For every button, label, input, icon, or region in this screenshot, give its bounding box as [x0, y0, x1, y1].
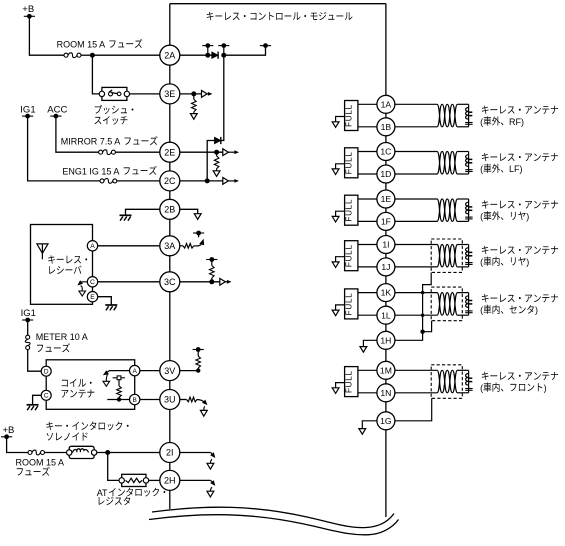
wire: 3V right: [180, 370, 198, 372]
svg-text:1B: 1B: [381, 122, 392, 132]
open arrow ground (3E): [190, 114, 197, 120]
label: keyless control module: [207, 12, 214, 20]
connector pin 1E: [377, 190, 395, 208]
wire: to right stub terminal: [224, 46, 266, 56]
svg-text:1L: 1L: [381, 310, 391, 320]
wire: down to diode D2: [221, 55, 224, 140]
svg-text:3E: 3E: [164, 89, 175, 99]
fuse ROOM 15 A (top): [64, 53, 68, 57]
svg-text:A: A: [133, 368, 138, 375]
svg-text:FULL: FULL: [345, 104, 354, 127]
svg-text:FULL: FULL: [345, 199, 354, 222]
keyless receiver box: [31, 225, 93, 305]
svg-text:1E: 1E: [381, 194, 392, 204]
wire: solenoid to 2I: [97, 452, 160, 454]
node: diode branch joins 2C: [205, 178, 210, 183]
connector pin 1J: [377, 258, 395, 276]
wires FULL box to 1C,1D: [358, 151, 377, 153]
svg-text:3A: 3A: [164, 241, 175, 251]
label keyless antenna: [482, 294, 489, 302]
svg-text:): ): [520, 164, 523, 174]
svg-text:3V: 3V: [164, 366, 175, 376]
label keyless antenna: [482, 372, 489, 380]
svg-text:2I: 2I: [166, 448, 174, 458]
open arrow below A arrow: [103, 381, 110, 386]
connector pin 1I: [377, 236, 395, 254]
svg-text:(: (: [480, 212, 483, 222]
connector pin 1B: [377, 118, 395, 136]
wires FULL box to 1E,1F: [358, 198, 377, 200]
svg-text:): ): [521, 117, 524, 127]
wire: 1G to 1M/1N box shield: [395, 398, 432, 421]
wire: 1H left to open arrow: [363, 340, 377, 346]
connector pin 1K: [377, 284, 395, 302]
wire FULL box to open arrow: [336, 211, 345, 216]
open arrow (3U): [200, 410, 207, 416]
svg-text:1A: 1A: [381, 99, 392, 109]
fuse ROOM 15 A (lower): [28, 451, 32, 455]
svg-text:(: (: [480, 305, 483, 315]
svg-text:ROOM 15 A: ROOM 15 A: [57, 40, 106, 50]
wire FULL box to open arrow: [336, 164, 345, 169]
harness wave top: [152, 507, 394, 527]
svg-text:+B: +B: [3, 425, 15, 436]
label keyless antenna: [482, 106, 489, 114]
wire: 3U right: [180, 399, 187, 401]
wire: +B down to ROOM fuse (lower): [7, 437, 28, 453]
connector pin 2I: [160, 443, 180, 463]
wire: 1G left to open arrow: [362, 421, 377, 429]
output arrow (3E): [202, 91, 208, 98]
svg-text:): ): [526, 257, 529, 267]
trimmer element inside box: [113, 377, 125, 379]
svg-text:MIRROR 7.5 A: MIRROR 7.5 A: [61, 137, 121, 147]
node with stub terminal: [223, 46, 225, 56]
output arrow (3C): [220, 278, 226, 285]
antenna coil (1E/1F): [395, 198, 437, 200]
label keyless receiver: [48, 255, 55, 263]
svg-text:METER 10 A: METER 10 A: [36, 332, 88, 342]
wire: 2B left to ground: [126, 209, 160, 215]
wire: 3E to output arrow: [180, 93, 202, 95]
svg-text:D: D: [44, 369, 49, 376]
FULL connector block (1K/1L): [345, 289, 358, 319]
svg-text:FULL: FULL: [345, 370, 354, 393]
antenna coil (1K/1L): [431, 287, 462, 321]
node: shield common: [420, 330, 424, 334]
wire: 3C to output arrow: [180, 281, 220, 283]
wires FULL box to 1K,1L: [358, 292, 377, 294]
label keyless antenna: [482, 153, 489, 161]
svg-text:1N: 1N: [380, 388, 391, 398]
wire: 2H right: [180, 479, 211, 481]
connector pin 3C: [160, 272, 180, 292]
wire FULL box to open arrow: [336, 257, 345, 262]
svg-text:ROOM 15 A: ROOM 15 A: [16, 458, 65, 468]
terminal D: [41, 366, 51, 376]
connector pin 1F: [377, 212, 395, 230]
curved arrow down (3U): [197, 400, 205, 403]
svg-text:(: (: [480, 257, 483, 267]
label keyless antenna: [482, 246, 489, 254]
wire: branch down to AT resistor: [108, 453, 119, 481]
wires FULL box to 1M,1N: [358, 369, 377, 371]
terminal B: [130, 394, 140, 404]
node: [105, 450, 110, 455]
diode D2: [215, 137, 221, 143]
open arrow (2I): [207, 463, 214, 469]
svg-text:C: C: [44, 393, 49, 400]
svg-text:FULL: FULL: [345, 292, 354, 315]
signal arrow at A (inside box): [106, 371, 130, 374]
svg-text:(: (: [480, 117, 483, 127]
wire: D2 anode down to 2C line: [207, 141, 214, 181]
svg-text:ACC: ACC: [47, 105, 67, 116]
ground (2B left): [120, 214, 132, 216]
antenna symbol: [37, 244, 48, 253]
node: [214, 150, 219, 155]
connector pin 1D: [377, 165, 395, 183]
svg-text:1G: 1G: [380, 416, 392, 426]
connector pin 1G: [377, 412, 395, 430]
wire: B internal: [107, 399, 129, 401]
wire: module left edge down to 2A: [169, 4, 171, 56]
terminal C: [87, 277, 97, 287]
signal arrow at C: [80, 282, 88, 284]
connector pin 2B: [160, 199, 180, 219]
svg-text:): ): [535, 305, 538, 315]
connector pin 3U: [160, 390, 180, 410]
svg-text:2C: 2C: [164, 176, 176, 186]
wire: A to 3A: [98, 245, 160, 247]
connector pin 2E: [160, 142, 180, 162]
svg-text:(: (: [480, 383, 483, 393]
wire: 2E to output arrow: [180, 151, 223, 153]
resistor right of 3A: [180, 245, 183, 247]
shield link: 1I/1J box down to common node: [423, 273, 432, 332]
svg-text:AT: AT: [97, 488, 108, 498]
svg-text:C: C: [90, 279, 95, 286]
svg-text:1K: 1K: [381, 288, 392, 298]
output arrow (2E): [223, 149, 229, 156]
svg-text:): ): [526, 212, 529, 222]
label key interlock solenoid: [46, 422, 53, 430]
wire: 2C to output arrow: [180, 180, 223, 182]
open arrow below C: [79, 291, 86, 296]
svg-text:RF: RF: [509, 117, 521, 127]
resistor right of 3U: [187, 397, 197, 402]
wire: branch down to push switch: [92, 55, 99, 94]
wire FULL box to open arrow: [336, 305, 345, 310]
terminal A: [130, 365, 140, 375]
svg-text:FULL: FULL: [345, 244, 354, 267]
fuse METER 10 A: [26, 335, 30, 339]
connector pin 2H: [160, 470, 180, 490]
node: junction +B feed: [90, 53, 95, 58]
FULL connector block (1C/1D): [345, 148, 358, 178]
svg-text:1M: 1M: [380, 365, 392, 375]
terminal E: [87, 292, 97, 302]
svg-text:IG1: IG1: [21, 308, 36, 319]
wire: 2A to diode D1: [180, 54, 212, 56]
diode D1: [212, 52, 218, 58]
connector pin 3A: [160, 236, 180, 256]
FULL connector block (1A/1B): [345, 101, 358, 131]
node with stub terminal: [207, 46, 209, 56]
resistor below 2E node: [216, 152, 218, 156]
FULL connector block (1M/1N): [345, 367, 358, 397]
connector pin 2A: [160, 45, 180, 65]
wire: 2B right to open arrow: [180, 209, 198, 213]
module boundary: keyless control module top edge: [170, 3, 386, 5]
wire: right connector chain vertical: [385, 104, 387, 517]
svg-text:2H: 2H: [164, 476, 176, 486]
wire: fuse to 2A: [92, 54, 159, 56]
antenna coil (1M/1N): [431, 365, 462, 399]
wire: C to ground: [33, 395, 41, 405]
terminal A: [87, 241, 97, 251]
svg-text:(: (: [480, 164, 483, 174]
connector pin 1L: [377, 306, 395, 324]
wire: IG1 down to ENG1 fuse and 2C: [28, 116, 100, 181]
svg-text:1F: 1F: [381, 217, 391, 227]
svg-text:3U: 3U: [164, 395, 176, 405]
wire: IG1 down to METER fuse: [27, 320, 29, 335]
output arrow (2C): [223, 178, 229, 185]
curved arrow to stub terminal: [194, 241, 203, 246]
wire: +B down and right to ROOM fuse: [29, 16, 64, 55]
wire: left connector chain vertical: [169, 55, 171, 509]
label coil antenna: [62, 380, 68, 387]
open arrow (2B right): [194, 214, 201, 220]
harness wave bottom: [149, 515, 399, 535]
svg-text:FULL: FULL: [345, 151, 354, 174]
shield link: common node to 1K/1L box: [423, 321, 432, 332]
svg-text:2E: 2E: [164, 147, 175, 157]
wires FULL box to 1I,1J: [358, 244, 377, 246]
svg-text:1I: 1I: [382, 240, 389, 250]
connector pin 1H: [377, 331, 395, 349]
connector pin 1M: [377, 361, 395, 379]
label keyless antenna: [482, 200, 489, 208]
wire FULL box to open arrow: [336, 383, 345, 388]
node: [191, 91, 196, 96]
FULL connector block (1I/1J): [345, 241, 358, 271]
open arrow ground (2E): [213, 171, 220, 177]
ground (coil antenna C): [27, 404, 39, 406]
svg-text:2A: 2A: [164, 50, 175, 60]
wire: A to 3V: [140, 370, 160, 372]
svg-text:): ): [544, 383, 547, 393]
wire: B to 3U: [140, 399, 160, 401]
resistor above 3V: [197, 368, 199, 371]
svg-text:2B: 2B: [164, 205, 175, 215]
wire FULL box to open arrow: [336, 117, 345, 122]
ground (receiver E): [105, 304, 117, 306]
svg-text:+B: +B: [22, 4, 34, 15]
AT interlock resistor: [122, 474, 146, 486]
svg-text:E: E: [90, 294, 95, 301]
wire: AT resistor to 2H: [149, 479, 160, 481]
FULL connector block (1E/1F): [345, 195, 358, 225]
svg-text:3C: 3C: [164, 277, 176, 287]
open arrow (2H): [207, 491, 214, 497]
wire: push switch to 3E: [130, 93, 160, 95]
svg-text:1H: 1H: [380, 335, 391, 345]
connector pin 3E: [160, 84, 180, 104]
terminal C: [41, 390, 51, 400]
svg-text:ENG1 IG 15 A: ENG1 IG 15 A: [62, 166, 119, 176]
label push switch: [95, 105, 102, 114]
wire: ACC down to MIRROR fuse and 2E: [56, 116, 99, 152]
svg-text:1C: 1C: [380, 147, 391, 157]
antenna coil (1C/1D): [395, 151, 437, 153]
wires FULL box to 1A,1B: [358, 103, 377, 105]
key interlock solenoid: [69, 446, 94, 458]
antenna coil (1A/1B): [395, 103, 437, 105]
wire: 1H to shield common: [395, 332, 423, 341]
connector pin 1N: [377, 384, 395, 402]
svg-text:A: A: [90, 243, 95, 250]
svg-text:1D: 1D: [380, 169, 391, 179]
wire: fuse to D terminal: [28, 350, 41, 372]
resistor below 3E node: [193, 94, 195, 99]
svg-text:1J: 1J: [381, 262, 390, 272]
resistor above 3C node: [211, 278, 213, 282]
connector pin 2C: [160, 171, 180, 191]
wire: module right edge down to 1A: [385, 4, 387, 105]
connector pin 1A: [377, 95, 395, 113]
connector pin 3V: [160, 361, 180, 381]
connector pin 1C: [377, 143, 395, 161]
coil antenna box: [46, 360, 135, 410]
wire: E to ground: [98, 297, 112, 305]
fuse ENG1 IG 15 A: [100, 179, 104, 183]
svg-text:LF: LF: [509, 164, 520, 174]
fuse MIRROR 7.5 A: [99, 150, 103, 154]
antenna coil (1I/1J): [431, 239, 462, 272]
wire: C to 3C: [98, 281, 160, 283]
push switch SW: [102, 87, 127, 100]
wire: 2I right: [180, 452, 211, 454]
node: [209, 279, 214, 284]
svg-text:B: B: [133, 397, 137, 404]
